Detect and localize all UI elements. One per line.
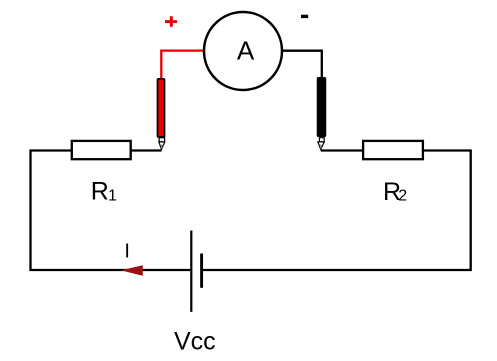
svg-text:A: A [237,36,255,66]
wire: left branch from R1 down and along the bottom to battery + plate [31,151,191,271]
probe: red test probe [158,79,165,150]
label R1 [91,178,117,206]
svg-text:I: I [124,240,130,262]
probe: black test probe [318,78,326,150]
svg-text:1: 1 [108,188,117,205]
label: + (positive terminal) [165,16,177,27]
wire: red lead from ammeter left terminal to red probe top [161,51,204,79]
svg-text:Vcc: Vcc [174,328,216,356]
wire: black lead from ammeter right terminal to black probe top [282,51,322,78]
battery Vcc [191,231,201,312]
svg-text:2: 2 [398,188,407,205]
current arrow I [121,265,143,276]
wire: node between black probe tip and R2 [321,149,363,151]
resistor R1 [72,141,131,159]
wire: bottom run from battery - plate to right branch [203,151,471,271]
wire: node between R1 and red probe tip [131,149,162,151]
resistor R2 [363,141,423,159]
label R2 [383,178,407,206]
label: - (negative terminal) [301,15,308,18]
svg-text:R: R [91,178,109,206]
ammeter U1 [204,12,282,90]
